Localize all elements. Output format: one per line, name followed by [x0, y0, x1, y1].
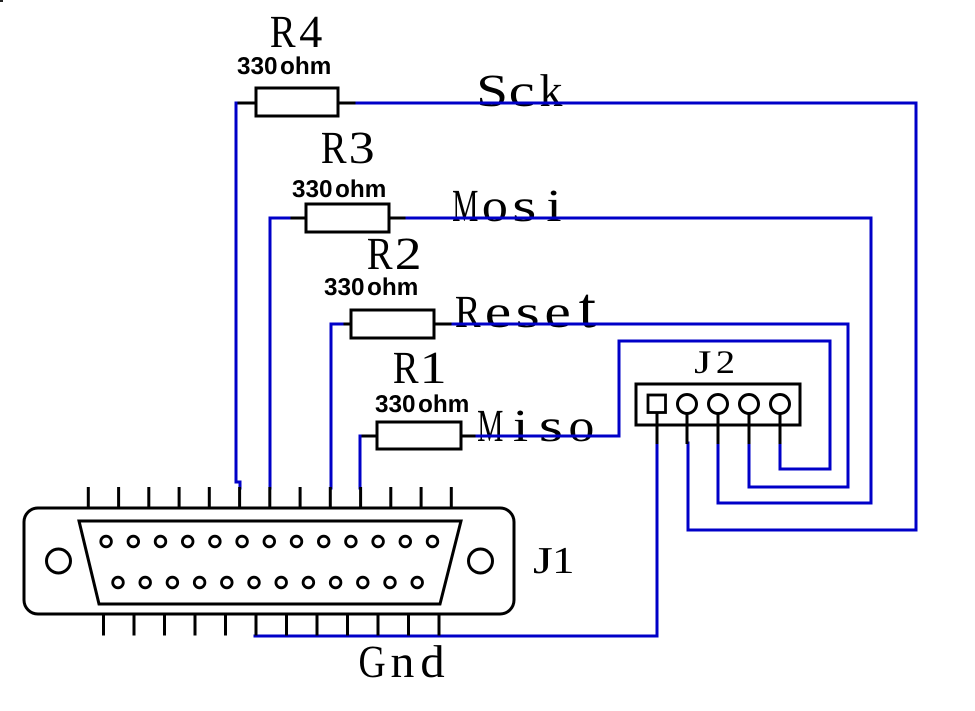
value 330 ohm (R1)	[376, 394, 468, 412]
wire R2 to J1 top lead 9	[331, 324, 342, 488]
J2 pin 2 lead	[686, 413, 689, 444]
value 330 ohm (R3)	[293, 179, 385, 197]
wire Reset: R2 right lead to J2 pin 4	[453, 324, 848, 487]
label J2	[695, 351, 733, 373]
label R4	[271, 17, 322, 47]
label R3	[322, 133, 373, 164]
J1 left mounting hole	[47, 549, 71, 573]
net label Miso	[478, 411, 592, 442]
J2 pin 2 pad	[678, 395, 697, 414]
net label Reset	[456, 295, 596, 328]
J2 pin 3 lead	[717, 413, 720, 444]
value 330 ohm (R2)	[325, 277, 417, 295]
J2 pin 4 lead	[748, 413, 751, 444]
wire Miso: R1 right lead to J2 pin 5	[477, 341, 830, 469]
resistor R3	[288, 204, 408, 232]
J1 top row pin holes (13)	[101, 536, 438, 547]
connector J2 body	[636, 384, 800, 425]
net label Gnd	[360, 645, 444, 677]
resistor R1	[360, 422, 478, 449]
wire Sck: R4 right lead to J2 pin 2	[357, 103, 916, 530]
net label Mosi	[453, 191, 561, 222]
wire R1 to J1 top lead 10	[359, 436, 362, 488]
J2 pin 5 pad	[771, 395, 790, 414]
J2 pin 5 lead	[779, 413, 782, 444]
wire Mosi: R3 right lead to J2 pin 3	[407, 218, 871, 503]
net label Sck	[480, 74, 562, 106]
J2 pin 3 pad	[709, 395, 728, 414]
wire R4 to J1 top lead 6	[236, 103, 240, 488]
label R2	[368, 239, 419, 270]
J1 top pin leads (13)	[88, 487, 451, 508]
J2 pin 1 square pad	[648, 395, 666, 413]
label R1	[394, 353, 443, 383]
connector J1 body	[24, 508, 514, 614]
wire Gnd: J1 bottom leads bus to J2 pin 1	[255, 443, 657, 636]
resistor R4	[236, 88, 358, 116]
J2 pin 4 pad	[740, 395, 759, 414]
J1 bottom row pin holes (12)	[113, 577, 423, 588]
J1 right mounting hole	[469, 549, 493, 573]
J2 pin 1 lead	[656, 413, 659, 444]
label J1	[534, 548, 572, 574]
value 330 ohm (R4)	[238, 56, 330, 74]
J1 bottom pin leads (12)	[104, 614, 440, 636]
corner artifact speck	[0, 0, 3, 2]
resistor R2	[341, 310, 454, 338]
wire R3 to J1 top lead 7	[270, 218, 289, 488]
